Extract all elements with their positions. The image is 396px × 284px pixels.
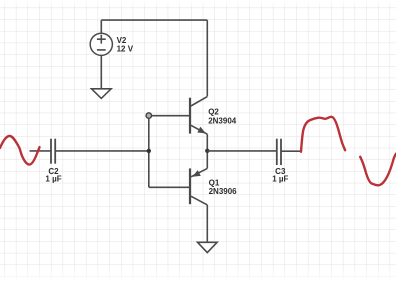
annotation output sine wave positive half xyxy=(301,117,345,152)
wire input segment left of C2 xyxy=(30,150,52,152)
svg-text:2N3904: 2N3904 xyxy=(208,117,237,126)
ground under V2 xyxy=(92,89,112,99)
capacitor C3 xyxy=(277,139,281,165)
wire Q1 collector down xyxy=(206,205,208,242)
svg-text:1 µF: 1 µF xyxy=(45,175,61,184)
annotation output sine wave negative half xyxy=(360,153,396,185)
wire top rail xyxy=(101,19,207,21)
wire input segment C2 to base bus xyxy=(55,150,149,152)
transistor Q2 2N3904 xyxy=(190,97,207,135)
wire V2 top stub xyxy=(100,20,102,33)
wire output node to C3 xyxy=(207,150,276,152)
wire base bus vertical xyxy=(148,116,150,188)
svg-text:2N3906: 2N3906 xyxy=(209,187,238,196)
wire C3 right stub xyxy=(281,150,301,152)
wire V2 bottom stub xyxy=(100,56,102,89)
transistor Q1 2N3906 xyxy=(190,168,207,205)
wire Q2 base xyxy=(149,115,190,117)
ground under Q1 xyxy=(198,242,218,252)
wire Q2 emitter to output node xyxy=(206,134,208,151)
capacitor C2 xyxy=(51,139,55,164)
wire collector drop to Q2 xyxy=(206,20,208,96)
svg-text:Q2: Q2 xyxy=(208,108,219,117)
svg-text:1 µF: 1 µF xyxy=(272,175,288,184)
wire Q1 base xyxy=(149,186,190,188)
svg-text:12 V: 12 V xyxy=(117,44,134,53)
annotation input sine wave xyxy=(0,136,40,165)
junction dot input at base bus xyxy=(147,149,151,153)
junction dot output node xyxy=(205,149,209,153)
voltage source V2 xyxy=(90,33,112,55)
node port circle at base bus top xyxy=(146,113,151,118)
wire output node to Q1 emitter xyxy=(206,151,208,169)
